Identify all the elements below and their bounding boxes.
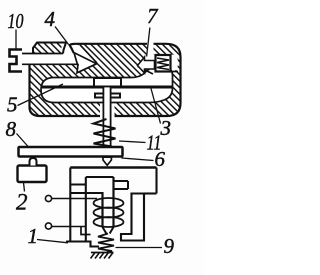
- terminal 1 circle: [45, 195, 51, 201]
- svg-text:9: 9: [164, 234, 175, 258]
- inlet channel (white bore): [22, 54, 78, 65]
- svg-text:2: 2: [16, 190, 28, 215]
- flow arrow in channel: [74, 53, 97, 73]
- valve 7 spring box: [156, 55, 171, 72]
- chamber bottom edge right of box: [171, 71, 179, 73]
- coil turn 3 (ring): [94, 217, 124, 227]
- diaphragm cavity (white): [41, 69, 173, 103]
- leader 5: [18, 84, 64, 106]
- channel top wall line: [22, 53, 63, 55]
- core left edge: [101, 192, 103, 227]
- svg-text:5: 5: [7, 93, 18, 117]
- svg-text:6: 6: [155, 147, 166, 171]
- valve 7 spring zigzag: [157, 58, 169, 70]
- right leg with foot: [121, 194, 144, 241]
- right shoulder edge: [127, 181, 129, 189]
- ground tick 1: [91, 253, 96, 259]
- wall gap for stem (white): [100, 101, 115, 118]
- hatch front wall of passage 4: [80, 45, 97, 63]
- wire to coil (bottom): [52, 226, 86, 228]
- wire to coil (top): [52, 198, 97, 200]
- svg-text:8: 8: [6, 117, 17, 141]
- leader 3: [151, 89, 161, 124]
- ground line: [91, 252, 114, 254]
- yoke left step top: [70, 184, 86, 186]
- stem (pushrod): [103, 87, 110, 148]
- housing left edge: [28, 65, 30, 108]
- right shoulder bottom: [114, 188, 129, 190]
- housing top edge (right of slot) + top-right corner: [154, 44, 181, 57]
- right shoulder top: [113, 180, 128, 182]
- leader 1: [37, 240, 68, 243]
- housing body (hatched section): [22, 42, 181, 116]
- svg-text:1: 1: [28, 224, 39, 248]
- housing top edge (left of slot) with tail into passage: [70, 44, 147, 53]
- lever bar 8: [19, 147, 123, 157]
- yoke left outer edge: [69, 168, 71, 242]
- valve plate 5 (above diaphragm): [94, 78, 121, 87]
- leader 6: [122, 158, 154, 161]
- leader 4: [55, 27, 69, 45]
- terminal 2 circle: [45, 223, 51, 229]
- sensor box nub: [30, 158, 37, 166]
- valve 7 poppet arrow: [138, 57, 155, 73]
- passage 4 diagonal bore (white): [69, 45, 96, 62]
- spring washer under diaphragm: [95, 94, 120, 98]
- leader 2: [24, 183, 25, 192]
- yoke left leg top: [70, 192, 102, 194]
- chamber of valve 7 (white): [144, 55, 178, 72]
- yoke right outer edge: [155, 168, 157, 194]
- channel bottom wall line: [22, 63, 78, 65]
- slot for leader of 7 (white): [147, 40, 154, 57]
- coil turn 2 (ring): [94, 208, 124, 218]
- svg-text:10: 10: [8, 9, 24, 33]
- ground tick 3: [100, 253, 105, 259]
- spring 9: [98, 234, 114, 253]
- connector 10: [10, 50, 23, 72]
- leader 7: [147, 28, 150, 57]
- core bottom taper: [103, 227, 114, 234]
- diaphragm 3 (membrane): [41, 86, 172, 89]
- leader 9: [116, 247, 163, 249]
- pivot tip under bar: [103, 157, 111, 165]
- ground tick 2: [95, 253, 100, 259]
- spring 11: [94, 119, 116, 147]
- housing bottom edge (left of gap) + bottom-left corner: [30, 107, 101, 116]
- ear (top-left boss) outline: [33, 43, 66, 54]
- coil turn 1 (ring): [94, 198, 124, 208]
- valve 7 seat line: [138, 66, 154, 74]
- core right edge: [112, 177, 114, 227]
- armature bar top: [86, 176, 114, 178]
- svg-text:4: 4: [45, 7, 56, 31]
- housing right edge: [167, 57, 181, 116]
- leader 8: [17, 134, 29, 148]
- svg-text:7: 7: [147, 4, 159, 28]
- housing bottom edge (right of gap): [115, 115, 168, 117]
- leader 10: [15, 30, 17, 50]
- armature top plate: [70, 166, 156, 168]
- yoke bottom-left foot: [66, 242, 99, 247]
- sensor box 2: [18, 166, 47, 183]
- leader 11: [119, 141, 146, 143]
- cavity outline: [41, 69, 173, 103]
- yoke right underside: [144, 192, 157, 194]
- passage 4 mouth notch (white): [62, 38, 74, 55]
- ground tick 5: [109, 253, 114, 259]
- yoke left inner edge: [85, 177, 87, 242]
- ground tick 4: [104, 253, 109, 259]
- wire2 drop step: [81, 227, 91, 235]
